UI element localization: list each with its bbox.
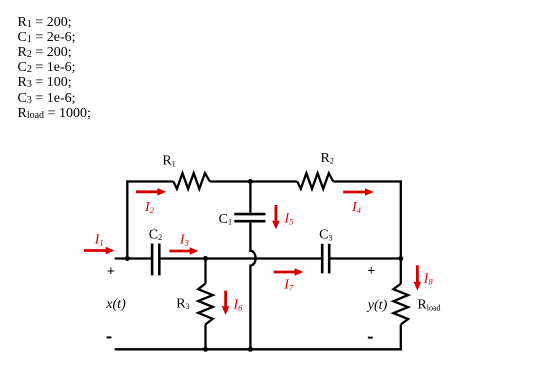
svg-text:C2: C2 <box>149 227 162 242</box>
wire bottom rail <box>115 348 402 350</box>
svg-text:x(t): x(t) <box>105 297 126 312</box>
resistor R1 <box>173 173 210 189</box>
svg-text:+: + <box>107 264 115 279</box>
wire R3 upper stub <box>204 258 206 284</box>
capacitor C1 plates <box>234 214 265 221</box>
resistor R2 <box>297 173 333 189</box>
node right rail middle <box>398 256 403 261</box>
svg-text:C1: C1 <box>219 212 232 227</box>
capacitor C3 plates <box>322 244 329 274</box>
parameter value text block <box>18 15 91 121</box>
wire right vertical upper <box>400 180 402 283</box>
svg-text:I7: I7 <box>283 277 294 292</box>
resistor Rload <box>393 284 408 325</box>
current arrow I7 <box>274 268 304 276</box>
svg-text:I4: I4 <box>351 200 362 215</box>
svg-text:C3: C3 <box>319 228 332 243</box>
wire top rail middle segment <box>210 180 297 182</box>
current arrow I1 <box>84 247 115 255</box>
svg-text:I6: I6 <box>233 298 244 313</box>
wire C1 vertical upper <box>249 180 251 212</box>
current arrow I2 <box>136 188 166 196</box>
capacitor C2 plates <box>152 244 159 276</box>
wire R3 lower stub <box>204 324 206 349</box>
svg-text:I3: I3 <box>179 233 189 248</box>
wire C2 to C3 middle segment <box>160 257 321 259</box>
svg-text:Rload: Rload <box>417 298 440 313</box>
wire C1 vertical lower with hop over middle wire <box>250 223 255 350</box>
wire right vertical lower <box>400 325 402 351</box>
current arrow I6 <box>222 291 230 315</box>
svg-text:I1: I1 <box>94 232 104 247</box>
minus sign right <box>368 337 373 339</box>
svg-text:R3: R3 <box>176 296 189 311</box>
minus sign left <box>107 336 112 338</box>
node C1 bottom <box>248 347 253 352</box>
svg-text:R2: R2 <box>321 151 334 166</box>
svg-text:I2: I2 <box>144 200 155 215</box>
current arrow I5 <box>272 205 280 230</box>
svg-text:I5: I5 <box>284 212 294 227</box>
current arrow I3 <box>170 247 199 255</box>
wire top rail right segment <box>333 180 402 182</box>
node left input + junction <box>125 256 130 261</box>
svg-text:R1: R1 <box>162 154 175 169</box>
wire left vertical <box>126 180 128 259</box>
svg-text:y(t): y(t) <box>366 298 388 313</box>
node R3 bottom <box>203 347 208 352</box>
svg-text:I8: I8 <box>423 272 434 287</box>
svg-text:+: + <box>367 264 375 279</box>
current arrow I8 <box>414 265 422 290</box>
wire C3 to right rail middle segment <box>330 257 401 259</box>
resistor R3 <box>198 284 213 325</box>
current arrow I4 <box>343 188 374 196</box>
node R3 top <box>203 256 208 261</box>
wire middle-left input stub <box>115 257 151 259</box>
wire top rail left segment <box>126 180 173 182</box>
node top rail / C1 <box>248 179 253 184</box>
